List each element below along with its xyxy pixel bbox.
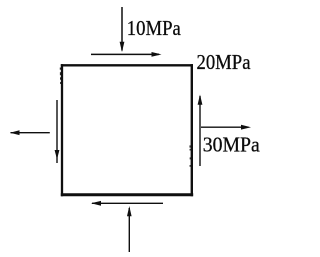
scan roughness on left edge near top-left corner (60, 68, 61, 85)
stress element square (61, 64, 193, 196)
arrow: right shear (upward) (198, 95, 203, 167)
arrow: top normal stress (down) (120, 7, 125, 52)
svg-text:20MPa: 20MPa (197, 50, 252, 74)
arrow: top shear (rightward) (91, 52, 162, 57)
arrow: bottom shear (leftward) (91, 201, 163, 206)
svg-text:30MPa: 30MPa (203, 132, 261, 156)
arrow: right normal stress (rightward) (201, 125, 251, 130)
arrow: bottom normal stress (up) (127, 206, 132, 252)
svg-text:10MPa: 10MPa (127, 16, 182, 40)
arrow: left normal stress (leftward) (10, 130, 50, 135)
arrow: left shear (downward) (55, 100, 60, 163)
scan roughness on right edge lower part (190, 145, 191, 166)
